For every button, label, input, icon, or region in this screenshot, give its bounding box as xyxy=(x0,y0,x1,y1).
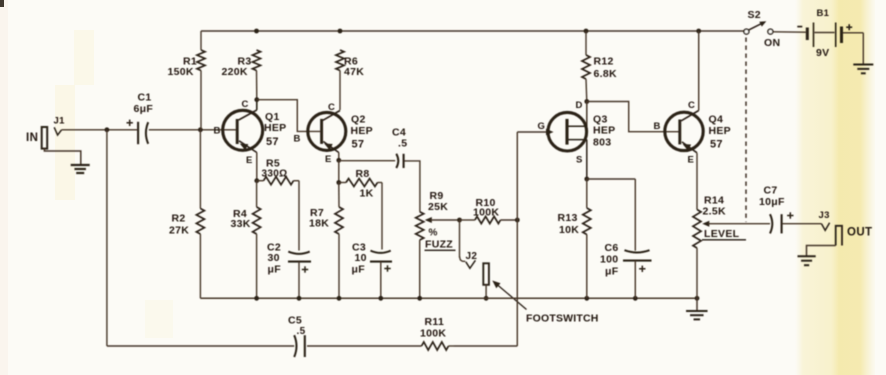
svg-text:D: D xyxy=(576,100,583,111)
wire R5 to C2 xyxy=(298,181,300,251)
svg-text:33K: 33K xyxy=(231,218,251,230)
svg-text:25K: 25K xyxy=(428,201,448,213)
wire battery middle xyxy=(815,32,835,34)
switch S2 terminal left xyxy=(744,29,749,34)
wire Q2 emitter down xyxy=(338,153,340,161)
svg-text:57: 57 xyxy=(266,136,279,148)
wire C5 to input xyxy=(107,130,294,346)
wire Q2 emitter to C4 xyxy=(339,160,395,162)
junction base line / R1-R2 xyxy=(198,127,203,132)
capacitor C4 xyxy=(396,154,403,168)
svg-text:HEP: HEP xyxy=(264,122,287,134)
wire source to C6 xyxy=(587,179,636,251)
label C4 xyxy=(392,126,407,149)
label OUT xyxy=(847,227,872,239)
svg-text:FUZZ: FUZZ xyxy=(425,239,453,251)
junction Q1 collector node xyxy=(254,97,259,102)
label R1 xyxy=(168,56,198,79)
transistor Q3 body xyxy=(548,112,587,151)
svg-text:Q4: Q4 xyxy=(709,114,724,126)
svg-text:HEP: HEP xyxy=(709,125,732,137)
jack J3 tip contact xyxy=(822,223,830,231)
capacitor C2 plus xyxy=(302,266,308,272)
resistor R5 xyxy=(257,177,299,185)
transistor Q1 collector lead xyxy=(239,100,257,120)
label R13 xyxy=(558,212,580,236)
svg-text:27K: 27K xyxy=(169,225,189,237)
resistor R10 xyxy=(460,216,518,223)
transistor Q2 emitter lead xyxy=(323,142,339,153)
label Q2 xyxy=(351,114,374,151)
svg-text:57: 57 xyxy=(352,139,365,151)
svg-text:μF: μF xyxy=(268,264,282,276)
transistor Q4 collector lead xyxy=(681,31,699,121)
wire Q3 drain to Q4 base xyxy=(587,102,679,132)
ground main (rail end) xyxy=(686,298,708,319)
wire emitter node down xyxy=(338,160,340,182)
ground under battery xyxy=(853,65,873,74)
svg-text:220K: 220K xyxy=(222,66,248,78)
svg-text:J1: J1 xyxy=(54,116,66,127)
svg-text:C: C xyxy=(242,99,249,110)
label R3 xyxy=(222,56,252,79)
capacitor C7 plus xyxy=(787,212,793,218)
junction Q3 drain node xyxy=(584,99,589,104)
svg-text:%: % xyxy=(429,228,438,239)
wire J1 sleeve to ground xyxy=(44,149,80,165)
transistor Q1 base bar xyxy=(236,119,239,144)
resistor R4 xyxy=(253,181,261,299)
svg-text:.5: .5 xyxy=(297,326,306,337)
label ON xyxy=(764,37,780,49)
junction rail / R13 xyxy=(584,296,589,301)
junction rail / R4 xyxy=(254,296,259,301)
transistor Q3 gate lead xyxy=(517,129,553,135)
label C2 xyxy=(267,242,281,276)
svg-text:B1: B1 xyxy=(817,8,830,19)
svg-text:R11: R11 xyxy=(425,316,445,328)
label IN xyxy=(26,132,38,144)
label R11 xyxy=(420,316,446,340)
junction rail / C2 xyxy=(297,296,302,301)
svg-text:C1: C1 xyxy=(138,92,152,104)
svg-text:10μF: 10μF xyxy=(759,196,785,208)
svg-text:J3: J3 xyxy=(819,210,830,221)
wire J1 to C1 (base line) xyxy=(62,129,137,131)
potentiometer R9 xyxy=(416,212,424,299)
svg-text:2.5K: 2.5K xyxy=(703,206,726,218)
junction top rail / R6 xyxy=(338,29,343,34)
battery B1 cell2 xyxy=(836,23,842,48)
label J1 xyxy=(54,116,66,127)
label R6 xyxy=(344,56,364,79)
potentiometer R14 wiper xyxy=(702,221,770,227)
svg-text:μF: μF xyxy=(352,264,366,276)
label R10 xyxy=(473,197,499,219)
junction input / feedback tap xyxy=(105,127,110,132)
svg-text:C6: C6 xyxy=(605,242,619,254)
battery B1 cell1 xyxy=(807,23,813,48)
svg-text:9V: 9V xyxy=(816,47,829,59)
capacitor C5 xyxy=(294,335,305,357)
svg-text:IN: IN xyxy=(26,132,38,144)
transistor Q2 base bar xyxy=(320,119,323,144)
transistor Q2 collector lead xyxy=(323,111,340,121)
svg-text:μF: μF xyxy=(605,266,619,278)
junction rail / R7 xyxy=(337,296,342,301)
battery B1 plus xyxy=(846,24,852,30)
label C5 xyxy=(288,315,306,338)
capacitor C3 plus xyxy=(384,265,390,271)
wire C7 to J3 xyxy=(782,223,821,225)
svg-text:30: 30 xyxy=(268,252,280,264)
wire J2 body to rail xyxy=(485,285,487,299)
svg-text:330Ω: 330Ω xyxy=(262,169,288,180)
svg-text:100K: 100K xyxy=(420,328,446,340)
svg-text:100K: 100K xyxy=(473,207,499,219)
transistor Q3 drain tap xyxy=(568,125,587,127)
capacitor C1 xyxy=(138,122,148,144)
svg-text:R8: R8 xyxy=(356,168,370,180)
label R4 xyxy=(231,208,251,230)
jack J2 tip contact xyxy=(466,260,476,268)
wire battery to ground xyxy=(843,33,863,64)
junction rail / C6 xyxy=(633,296,638,301)
transistor Q3 channel bar xyxy=(565,119,568,145)
wire Q1 emitter down xyxy=(256,153,258,181)
wire V+ top rail xyxy=(201,30,746,32)
resistor R2 xyxy=(196,130,204,298)
label C1 xyxy=(134,92,154,116)
capacitor C7 xyxy=(770,214,782,233)
footswitch pointer arrow xyxy=(492,281,526,310)
potentiometer R14 xyxy=(693,210,701,299)
capacitor C6 plus xyxy=(639,266,645,272)
svg-text:47K: 47K xyxy=(344,66,364,78)
svg-text:10: 10 xyxy=(355,252,367,264)
junction J2 / rail xyxy=(484,296,489,301)
wire S2 to battery xyxy=(773,31,806,33)
svg-text:J2: J2 xyxy=(466,251,478,262)
label C3 xyxy=(352,242,367,276)
potentiometer R9 wiper xyxy=(425,217,460,223)
junction top rail / R3 xyxy=(254,29,259,34)
svg-text:C7: C7 xyxy=(764,185,778,197)
svg-text:S2: S2 xyxy=(748,9,761,21)
resistor R1 xyxy=(197,31,205,130)
wire C4 to R9 xyxy=(405,161,420,212)
switch S2 terminal right xyxy=(768,29,773,34)
label R5 xyxy=(262,158,288,180)
svg-text:E: E xyxy=(688,155,695,166)
jack J1 plug body xyxy=(42,127,48,149)
svg-text:S: S xyxy=(576,155,583,166)
wire R11 to C5 xyxy=(307,345,422,347)
label Q1 xyxy=(264,111,287,148)
junction rail / R9 xyxy=(417,296,422,301)
wire feedback vertical xyxy=(454,132,517,346)
jack J3 body xyxy=(836,226,842,246)
svg-text:HEP: HEP xyxy=(351,125,374,137)
transistor Q1 emitter lead xyxy=(239,141,257,153)
label FOOTSWITCH xyxy=(526,313,599,325)
transistor Q4 emitter lead xyxy=(682,142,697,153)
svg-text:150K: 150K xyxy=(168,66,194,78)
svg-text:6μF: 6μF xyxy=(134,103,154,115)
svg-text:C: C xyxy=(328,102,335,113)
svg-text:10K: 10K xyxy=(559,224,579,236)
resistor R12 xyxy=(582,31,590,102)
capacitor C6 xyxy=(623,250,652,298)
battery B1 minus xyxy=(797,26,802,28)
wire C1 to Q1 base xyxy=(149,129,236,131)
capacitor C2 xyxy=(288,252,311,299)
svg-text:R2: R2 xyxy=(172,213,186,225)
resistor R13 xyxy=(583,179,591,298)
svg-text:100: 100 xyxy=(600,254,618,266)
svg-text:57: 57 xyxy=(710,139,723,151)
enclosure dashed line xyxy=(745,38,747,223)
junction top rail / R12 xyxy=(584,29,589,34)
svg-text:G: G xyxy=(538,121,546,132)
junction rail / R14 xyxy=(695,296,700,301)
jack J1 tip contact xyxy=(54,127,61,135)
svg-text:Q2: Q2 xyxy=(351,114,366,126)
switch S2 lever xyxy=(748,21,766,30)
svg-text:6.8K: 6.8K xyxy=(594,68,617,80)
junction R7/R8 node xyxy=(336,180,341,185)
label 9V xyxy=(816,47,829,59)
wire R8 to C3 xyxy=(381,183,383,250)
svg-text:E: E xyxy=(246,155,253,166)
label FUZZ xyxy=(425,228,456,251)
label C6 xyxy=(600,242,619,278)
label Q1 pins xyxy=(214,99,253,166)
svg-text:B: B xyxy=(214,126,221,137)
label Q4 xyxy=(709,114,732,151)
transistor Q4 body xyxy=(665,112,703,150)
svg-text:R12: R12 xyxy=(594,56,614,68)
capacitor C3 xyxy=(370,251,392,299)
label LEVEL xyxy=(702,228,746,240)
transistor Q4 base bar xyxy=(678,120,681,145)
wire Q4 emitter down xyxy=(696,153,698,210)
transistor Q2 body xyxy=(308,112,346,150)
svg-text:HEP: HEP xyxy=(593,125,616,137)
transistor Q1 body xyxy=(223,110,263,150)
capacitor C1 plus xyxy=(127,120,133,126)
junction top rail / Q4 collector xyxy=(696,29,701,34)
junction R10 right / feedback xyxy=(515,218,520,223)
resistor R7 xyxy=(335,183,343,299)
svg-text:E: E xyxy=(325,154,332,165)
svg-text:C: C xyxy=(688,100,695,111)
svg-text:18K: 18K xyxy=(309,218,329,230)
resistor R6 xyxy=(336,50,344,110)
junction Q2 emitter node xyxy=(336,158,341,163)
svg-text:C5: C5 xyxy=(288,315,302,327)
svg-text:FOOTSWITCH: FOOTSWITCH xyxy=(526,313,599,325)
label Q3 xyxy=(593,114,616,149)
resistor R3 xyxy=(253,50,261,100)
label B1 xyxy=(817,8,830,19)
label R12 xyxy=(594,56,617,81)
junction Q3 source node xyxy=(584,177,589,182)
label R2 xyxy=(169,213,189,237)
svg-text:OUT: OUT xyxy=(847,227,872,239)
resistor R11 xyxy=(422,342,455,350)
svg-text:B: B xyxy=(294,134,301,145)
resistor R8 xyxy=(339,179,382,187)
jack J2 plug body xyxy=(483,263,489,285)
label Q4 pins xyxy=(654,100,696,166)
svg-text:ON: ON xyxy=(764,37,780,49)
svg-text:B: B xyxy=(654,121,661,132)
wire J2 branch xyxy=(460,220,466,261)
svg-text:.5: .5 xyxy=(398,137,407,149)
label Q2 pins xyxy=(294,102,336,165)
junction Q1 emitter node xyxy=(254,178,259,183)
label Q3 pins xyxy=(538,100,583,166)
transistor Q3 source tap xyxy=(568,140,587,179)
label J3 xyxy=(819,210,830,221)
label S2 xyxy=(748,9,761,21)
junction R10 left / J2 xyxy=(457,218,462,223)
svg-text:R13: R13 xyxy=(558,212,578,224)
label R9 xyxy=(428,190,448,213)
ground under J1 xyxy=(71,165,90,173)
wire Q1 collector to Q2 base xyxy=(257,100,320,132)
junction rail / C3 xyxy=(378,296,383,301)
label R7 xyxy=(309,207,329,230)
label J2 xyxy=(466,251,478,262)
ground under J3 xyxy=(798,256,816,265)
svg-text:1K: 1K xyxy=(360,188,374,200)
label C7 xyxy=(759,185,785,209)
svg-text:803: 803 xyxy=(593,137,611,149)
svg-text:LEVEL: LEVEL xyxy=(704,228,740,240)
wire ground rail xyxy=(200,297,697,299)
wire drain node to Q3 xyxy=(586,102,588,127)
wire J3 sleeve to ground xyxy=(807,246,836,256)
label R8 xyxy=(356,168,374,200)
label R14 xyxy=(703,195,726,218)
